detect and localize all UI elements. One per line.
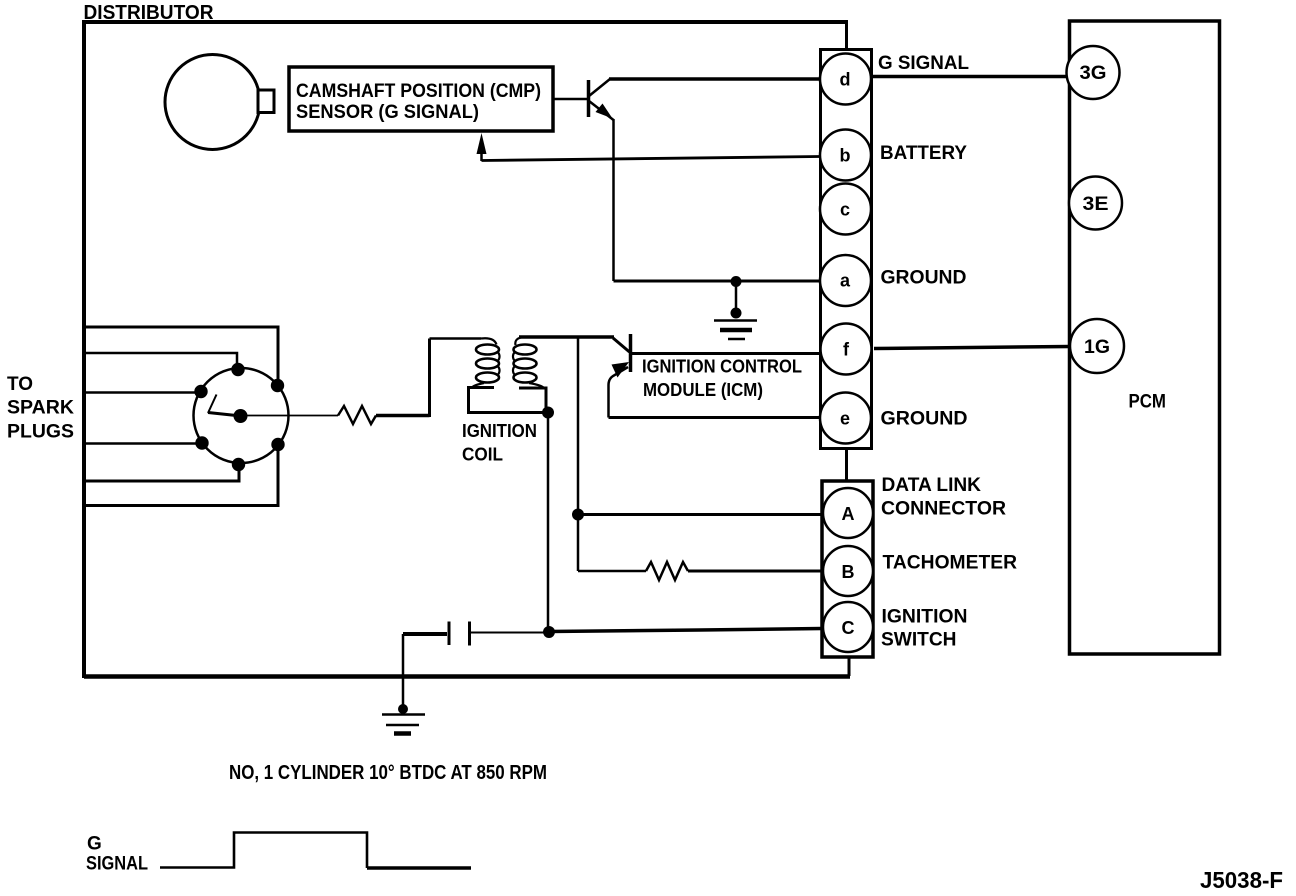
svg-text:COIL: COIL	[462, 444, 503, 465]
svg-text:IGNITION: IGNITION	[882, 606, 968, 628]
svg-text:DISTRIBUTOR: DISTRIBUTOR	[84, 2, 215, 24]
svg-text:3E: 3E	[1083, 194, 1109, 215]
svg-text:f: f	[843, 340, 850, 360]
svg-text:1G: 1G	[1084, 337, 1110, 358]
svg-text:c: c	[840, 200, 850, 220]
svg-text:a: a	[840, 271, 851, 291]
svg-text:G: G	[87, 834, 102, 855]
svg-text:d: d	[840, 70, 851, 90]
svg-text:CONNECTOR: CONNECTOR	[881, 498, 1006, 520]
svg-text:CAMSHAFT POSITION (CMP): CAMSHAFT POSITION (CMP)	[296, 81, 541, 102]
svg-text:IGNITION CONTROL: IGNITION CONTROL	[642, 356, 802, 377]
svg-text:SWITCH: SWITCH	[881, 629, 957, 651]
svg-text:IGNITION: IGNITION	[462, 420, 537, 441]
svg-text:BATTERY: BATTERY	[880, 142, 967, 164]
svg-text:PLUGS: PLUGS	[7, 422, 74, 443]
svg-text:SIGNAL: SIGNAL	[86, 854, 148, 875]
svg-text:e: e	[840, 409, 850, 429]
svg-text:TO: TO	[7, 374, 33, 395]
svg-text:G SIGNAL: G SIGNAL	[878, 52, 969, 74]
svg-text:MODULE (ICM): MODULE (ICM)	[643, 379, 763, 400]
svg-text:SPARK: SPARK	[7, 398, 74, 419]
svg-text:A: A	[842, 504, 855, 524]
svg-text:3G: 3G	[1080, 63, 1107, 84]
svg-text:b: b	[840, 146, 851, 166]
svg-text:GROUND: GROUND	[881, 267, 967, 289]
svg-text:GROUND: GROUND	[881, 408, 968, 430]
svg-text:NO, 1 CYLINDER 10° BTDC AT 850: NO, 1 CYLINDER 10° BTDC AT 850 RPM	[229, 762, 547, 784]
svg-text:C: C	[842, 618, 855, 638]
svg-text:SENSOR (G SIGNAL): SENSOR (G SIGNAL)	[296, 102, 479, 123]
svg-text:J5038-F: J5038-F	[1200, 867, 1283, 893]
svg-text:PCM: PCM	[1129, 392, 1167, 413]
svg-text:DATA LINK: DATA LINK	[882, 474, 982, 496]
svg-text:TACHOMETER: TACHOMETER	[883, 552, 1018, 574]
svg-text:B: B	[842, 562, 855, 582]
